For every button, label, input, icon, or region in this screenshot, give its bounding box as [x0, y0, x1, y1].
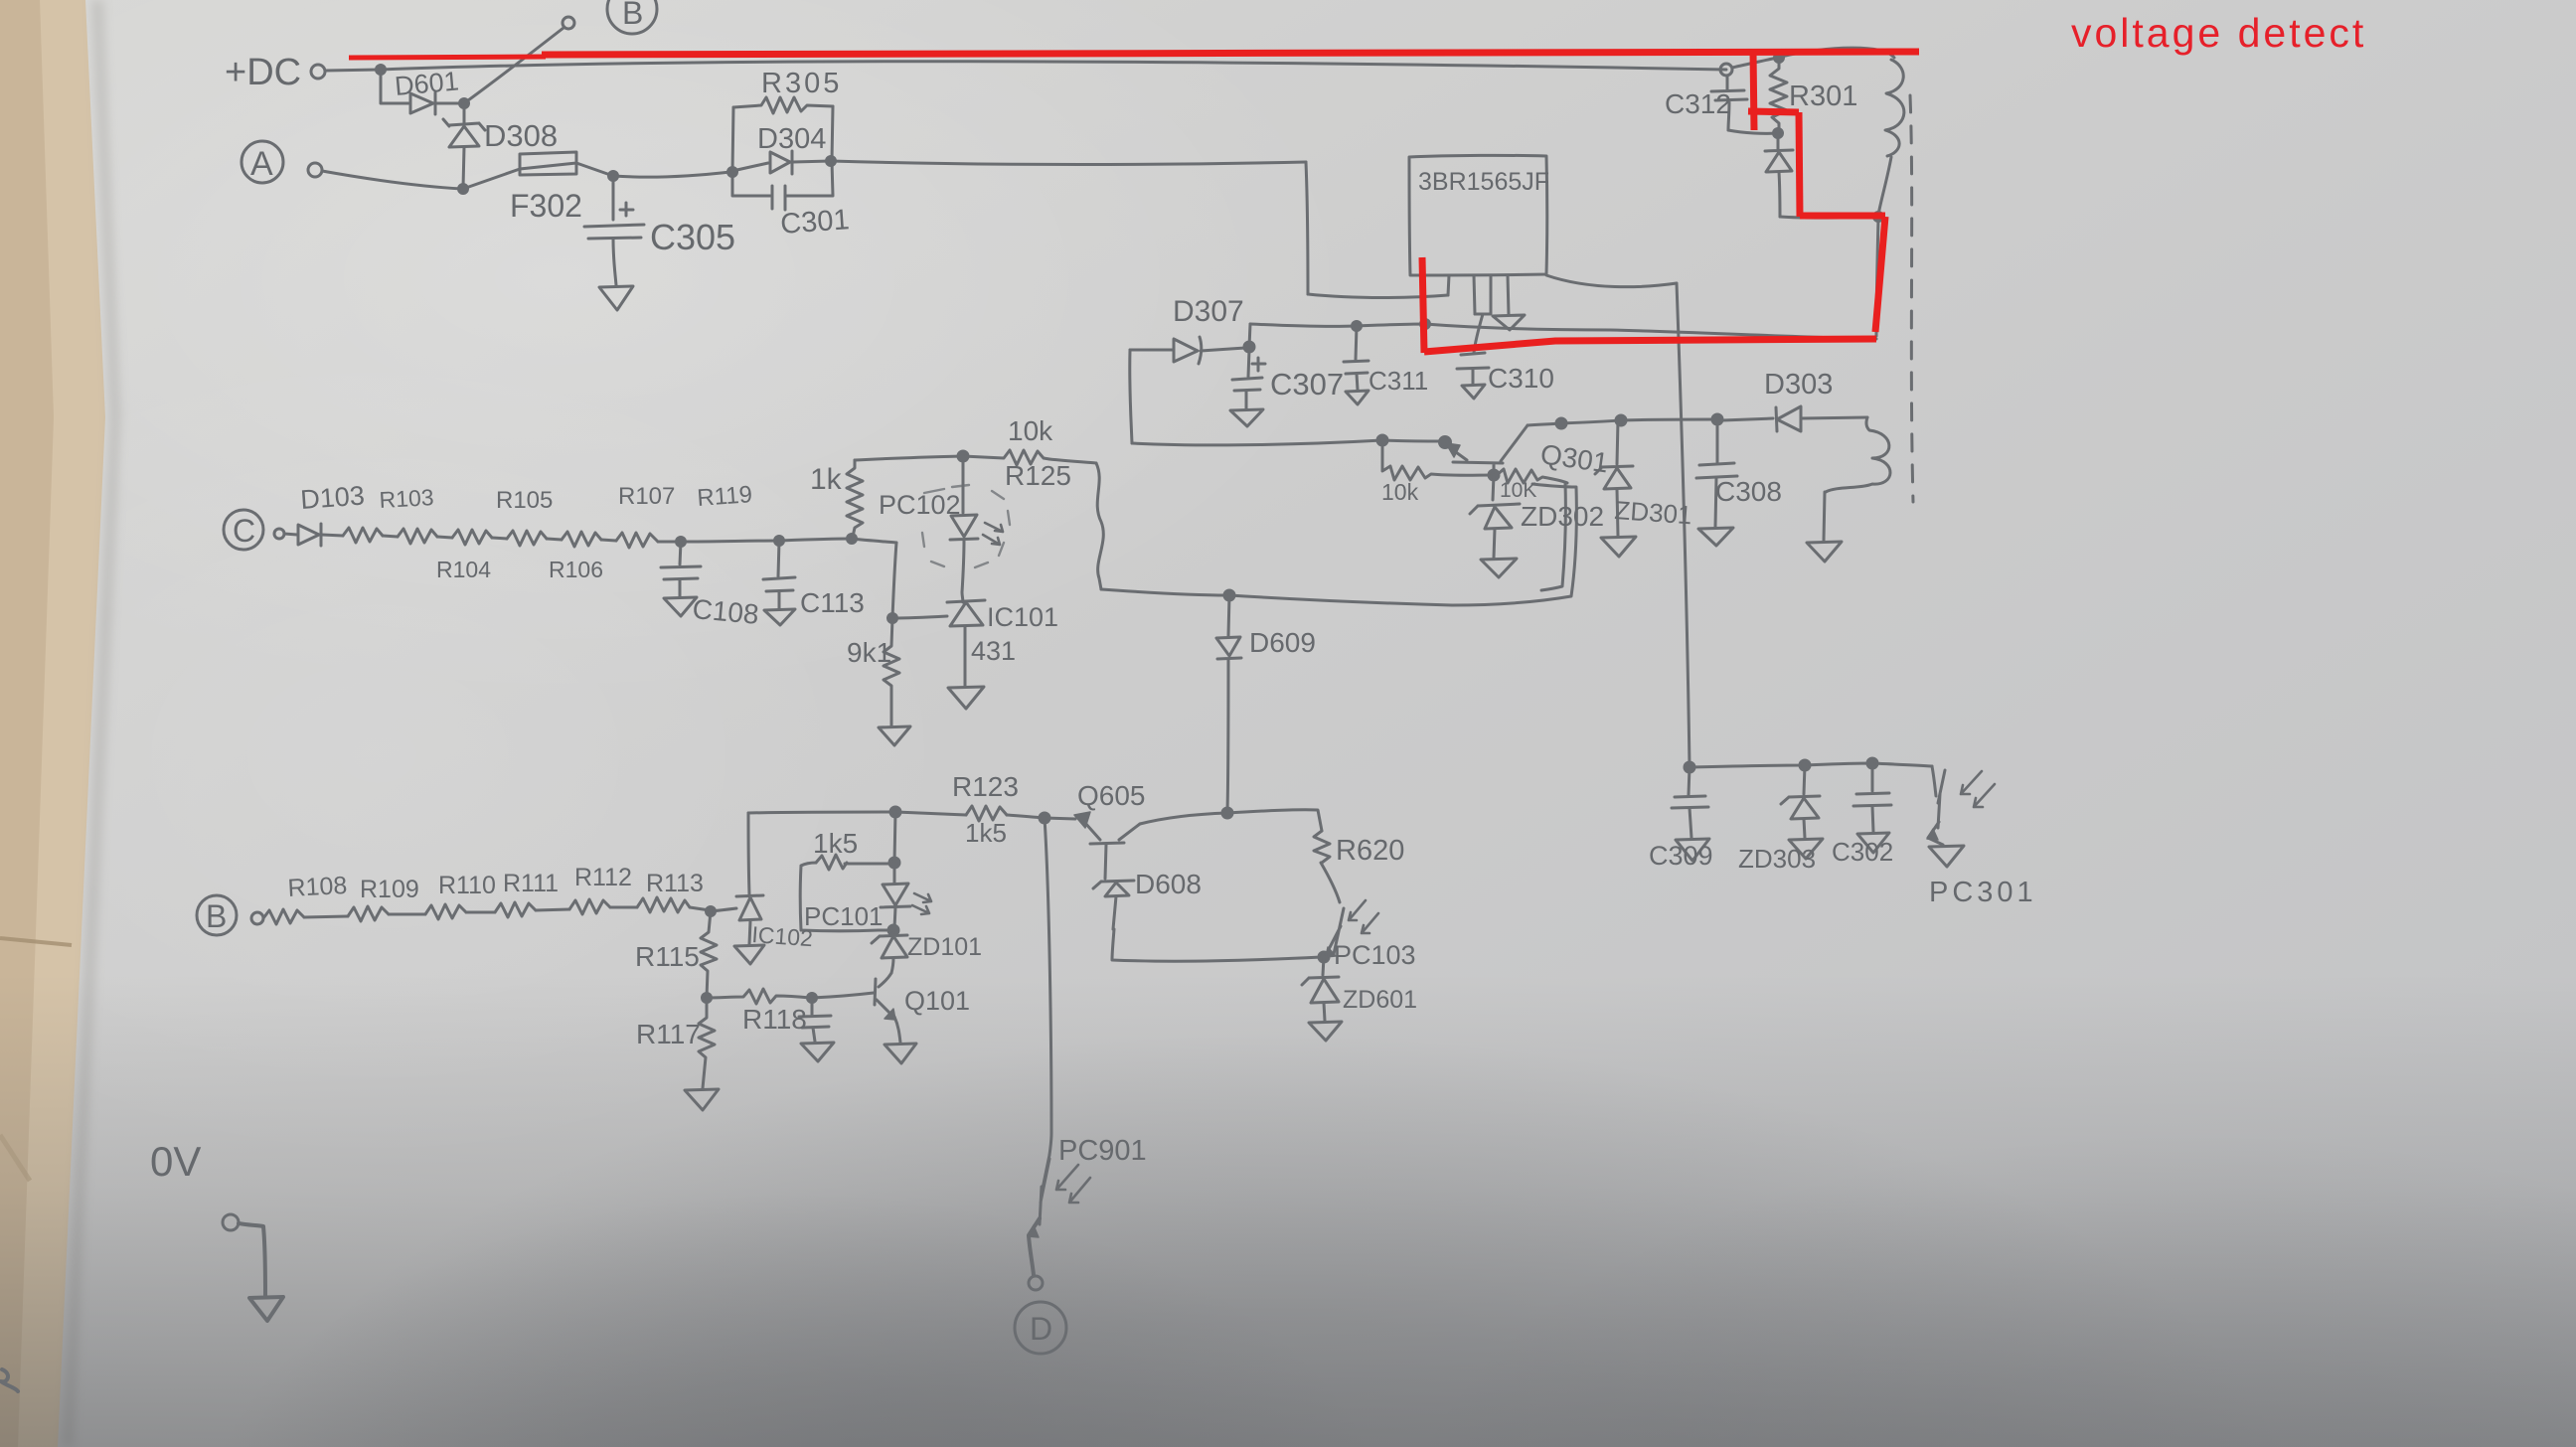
svg-text:C108: C108 [691, 593, 759, 630]
resistor R103 [343, 528, 383, 543]
light arrows PC102 [983, 523, 1003, 545]
node junction 10k left [1377, 435, 1387, 445]
svg-text:R119: R119 [697, 481, 753, 512]
LED PC101 [881, 863, 910, 928]
node junction D601/D308/B [460, 99, 469, 108]
svg-text:D609: D609 [1249, 627, 1316, 658]
wire 1k top [855, 456, 961, 460]
plus mark C307 [1252, 358, 1265, 371]
wire [383, 536, 398, 537]
svg-text:C308: C308 [1715, 476, 1782, 507]
svg-text:C309: C309 [1649, 841, 1713, 871]
wire D601 to junction [436, 102, 462, 105]
wire pins to C310 [1474, 314, 1483, 353]
node junction C302 [1867, 758, 1877, 768]
terminal B bottom [251, 912, 263, 924]
ground IC102 [734, 945, 764, 964]
svg-text:0V: 0V [150, 1138, 201, 1185]
svg-text:R620: R620 [1336, 835, 1404, 867]
capacitor C113 [763, 541, 795, 608]
svg-text:PC301: PC301 [1929, 877, 2037, 908]
wire [437, 537, 452, 538]
svg-text:R125: R125 [1005, 460, 1071, 491]
ground C310 [1462, 385, 1485, 399]
plus mark C305 [620, 203, 633, 216]
wire corner to coil bottom [1780, 217, 1877, 218]
wire C305 to ground [613, 239, 616, 285]
node junction C305 [609, 172, 618, 181]
svg-text:R107: R107 [618, 483, 675, 510]
svg-text:PC101: PC101 [804, 901, 884, 931]
wire D307 left drop [1130, 350, 1132, 443]
shunt reg IC102 [736, 895, 763, 944]
box PC101 [800, 863, 891, 931]
node junction R305 block left [728, 168, 737, 177]
wire base bus [1132, 440, 1382, 445]
svg-text:D601: D601 [394, 66, 460, 101]
zener ZD302 [1470, 475, 1520, 558]
light arrows PC101 [912, 893, 931, 914]
ground ZD301 [1601, 537, 1636, 557]
ground IC101 [948, 687, 984, 709]
wire to R305 block [613, 172, 730, 177]
svg-text:C305: C305 [650, 217, 735, 257]
wire PC901 long drop [1045, 818, 1051, 1155]
wire R123 to junction [1007, 815, 1044, 818]
ground 0V [249, 1297, 283, 1321]
wire D608 down and right [1112, 929, 1322, 961]
terminal +DC [311, 65, 325, 79]
Q101 emitter arrowhead [885, 1009, 895, 1020]
resistor R301 [1770, 58, 1787, 130]
red horizontal to coil [1800, 213, 1885, 220]
node junction rail PC101 [890, 807, 900, 817]
wire output row [1690, 763, 1932, 767]
wire [547, 539, 562, 540]
wire A line to IC [831, 161, 1306, 165]
wire rail drop to PC101 [894, 812, 895, 863]
svg-text:431: 431 [971, 636, 1016, 666]
node junction R301 bottom [1774, 129, 1783, 138]
wire to C113 node [681, 541, 779, 542]
capacitor C307 [1232, 350, 1262, 408]
wire rail to R620 [1227, 810, 1322, 831]
svg-text:D303: D303 [1764, 369, 1833, 401]
red vertical right of diode [1799, 112, 1800, 217]
diode D103 [298, 524, 321, 546]
svg-text:voltage detect: voltage detect [2071, 10, 2366, 56]
wire bus to box bottom [1229, 595, 1452, 605]
svg-text:1k: 1k [810, 463, 843, 496]
svg-text:ZD301: ZD301 [1614, 495, 1693, 530]
resistor R123 [966, 806, 1007, 821]
capacitor C302 [1853, 763, 1891, 832]
red annotation line segment left [349, 57, 546, 58]
svg-text:C312: C312 [1665, 88, 1731, 119]
wire secondary to ground [1824, 492, 1825, 541]
wire C305 stem [612, 176, 615, 220]
node junction R115/R117 [703, 994, 712, 1003]
wire box inner stroke [1541, 483, 1565, 590]
svg-text:R305: R305 [761, 68, 842, 99]
wire bus to D609 [1101, 589, 1227, 595]
node junction C108 [677, 538, 686, 547]
light arrows PC301 [1961, 771, 1995, 807]
resistor R117 [699, 998, 715, 1088]
fuse F302 [520, 152, 576, 175]
ground 9k1 [879, 726, 910, 745]
ground pin 4 [1493, 315, 1525, 330]
svg-text:D608: D608 [1135, 869, 1202, 899]
phototransistor PC103 [1321, 863, 1344, 955]
wire C to D103 [284, 534, 297, 535]
wire box around Q301 [1452, 484, 1576, 605]
wire rail PC101 top [748, 812, 893, 813]
resistor R115 [701, 911, 717, 998]
resistor R110 [425, 904, 466, 919]
svg-text:R106: R106 [549, 557, 603, 582]
desk along left edge [0, 0, 105, 1447]
svg-text:1k5: 1k5 [965, 818, 1007, 848]
svg-text:9k1: 9k1 [847, 637, 891, 668]
node junction D307/C307 [1244, 342, 1254, 352]
wire C312 node to R301 top [1732, 58, 1777, 68]
svg-text:R109: R109 [360, 876, 419, 903]
node junction bus C311 [1353, 322, 1362, 331]
phototransistor PC301 [1932, 766, 1945, 828]
resistor 1k [847, 460, 863, 537]
wire A to junction [322, 171, 462, 189]
node junction PC103 emitter [1319, 952, 1329, 962]
svg-text:+DC: +DC [225, 52, 301, 93]
pin 1 [1448, 275, 1449, 295]
node junction A/D308 [459, 185, 468, 194]
resistor R620 [1314, 831, 1330, 863]
diode D307 [1130, 337, 1245, 364]
svg-text:R105: R105 [496, 487, 553, 514]
svg-text:R118: R118 [742, 1004, 807, 1035]
svg-text:10k: 10k [1381, 479, 1419, 505]
svg-text:IC101: IC101 [987, 602, 1058, 632]
wire [492, 538, 507, 539]
node junction coil bottom [1874, 213, 1883, 222]
wire junction to Q605 [1045, 818, 1075, 819]
wire A line drop [1306, 162, 1308, 294]
wire IC right to drop [1546, 275, 1677, 287]
transformer secondary winding [1826, 417, 1890, 492]
wire D601 branch down [381, 70, 408, 103]
svg-text:PC102: PC102 [879, 490, 961, 520]
resistor R109 [348, 906, 389, 921]
svg-text:R108: R108 [287, 872, 348, 902]
wire R301 top to transformer [1781, 48, 1894, 58]
svg-text:B: B [206, 898, 227, 934]
transistor Q101 [875, 973, 893, 1017]
ground C311 [1346, 391, 1368, 404]
svg-text:ZD303: ZD303 [1738, 844, 1816, 874]
wire C312 to R301 bottom [1728, 130, 1776, 133]
transformer core dashed [1910, 95, 1913, 502]
wire [389, 913, 425, 916]
wire collector bus [1528, 419, 1716, 425]
node B circle [607, 0, 657, 34]
ground Q101 [885, 1044, 916, 1063]
diode D310 [1765, 133, 1793, 172]
red bottom bus highlight [1424, 339, 1876, 352]
node junction IC101 row [888, 614, 897, 623]
svg-text:Q605: Q605 [1077, 780, 1146, 811]
wire [304, 916, 348, 917]
ground C307 [1230, 409, 1263, 426]
node junction Q605/PC901 [1040, 813, 1049, 823]
PC103 emitter arrowhead [1326, 947, 1336, 957]
wire IC101 to ground [964, 627, 967, 686]
node junction ZD301 top [1616, 415, 1626, 425]
svg-text:R301: R301 [1789, 80, 1857, 112]
capacitor C309 [1672, 767, 1708, 838]
node A circle [241, 141, 283, 183]
wire rail to R123 [895, 812, 966, 815]
svg-text:10k: 10k [1008, 415, 1053, 446]
resistor R118 [707, 989, 810, 1004]
resistor R112 [569, 899, 610, 914]
node junction D601 top [377, 66, 386, 75]
resistor R107 [562, 532, 601, 547]
svg-text:ZD601: ZD601 [1343, 986, 1417, 1014]
wire block bottom left [732, 172, 770, 196]
svg-text:A: A [250, 145, 273, 183]
svg-text:R111: R111 [503, 870, 559, 897]
pencil scribble bottom left [1, 1369, 18, 1391]
wire coil drop under red [1876, 219, 1878, 336]
resistor R108 [263, 909, 304, 924]
ground R117 [685, 1089, 719, 1110]
node junction D609 bottom [1222, 808, 1232, 818]
node junction C113 [775, 537, 784, 546]
capacitor C310 [1457, 353, 1489, 384]
resistor R305 [733, 97, 833, 113]
wire D103 to chain [322, 535, 343, 536]
terminal 0V [223, 1214, 239, 1230]
node junction bus red corner [1421, 320, 1430, 329]
node D circle [1015, 1302, 1066, 1354]
wire IC102 to rail [748, 813, 749, 894]
LED PC102 [950, 456, 978, 602]
node C312 terminal [1720, 64, 1732, 76]
wire junction to fuse [463, 169, 520, 189]
wire R125 to drop [1049, 459, 1096, 463]
wire coil tail [1878, 157, 1891, 215]
pin 3 [1475, 275, 1491, 314]
resistor R106 [507, 531, 547, 546]
svg-text:3BR1565JF: 3BR1565JF [1418, 168, 1549, 196]
svg-text:D307: D307 [1173, 295, 1244, 328]
svg-text:R113: R113 [646, 870, 704, 897]
svg-text:C: C [233, 513, 255, 549]
PC301 emitter [1928, 822, 1943, 845]
ground ZD302 [1481, 559, 1517, 577]
svg-text:10K: 10K [1500, 479, 1536, 502]
svg-text:R110: R110 [438, 872, 496, 899]
Q605 emitter arrowhead [1074, 812, 1090, 828]
wire D308 to A line [463, 147, 464, 188]
svg-text:R103: R103 [379, 484, 434, 513]
resistor R113 [637, 897, 690, 912]
ground secondary [1807, 542, 1842, 562]
svg-text:C301: C301 [779, 204, 850, 241]
svg-text:Q101: Q101 [904, 986, 970, 1016]
svg-text:C311: C311 [1368, 366, 1428, 396]
node junction PC101 bottom [888, 925, 898, 935]
capacitor C305 [584, 225, 644, 239]
wire Q605 collector rail [1140, 813, 1227, 824]
svg-text:C307: C307 [1270, 367, 1344, 402]
resistor 10k left of Q301 [1382, 440, 1492, 480]
ground C302 [1857, 833, 1889, 853]
light arrows PC103 [1349, 900, 1378, 933]
wire [610, 906, 637, 909]
wire bottom bus to C309 [1685, 762, 1694, 772]
ground C308 [1698, 528, 1733, 546]
wire IC101 row [892, 616, 947, 618]
wire to 1k bottom [779, 539, 850, 541]
svg-text:D103: D103 [299, 481, 365, 515]
wire ground bus y330 [1250, 324, 1876, 339]
node junction ZD303 [1800, 760, 1810, 770]
terminal B [563, 17, 574, 29]
wire R118 to Q101 base [812, 993, 874, 998]
svg-text:F302: F302 [510, 188, 582, 224]
svg-text:C310: C310 [1488, 363, 1554, 394]
red vertical at C312 [1753, 52, 1754, 130]
ground C113 [764, 609, 795, 625]
svg-text:D: D [1030, 1311, 1052, 1347]
wire pin bus [1308, 294, 1448, 298]
svg-text:R117: R117 [636, 1019, 701, 1049]
svg-text:R104: R104 [436, 557, 491, 582]
terminal C [274, 529, 284, 539]
resistor R119 [616, 533, 658, 548]
svg-text:ZD302: ZD302 [1521, 501, 1604, 532]
node junction collector [1556, 418, 1566, 428]
wire to C108 node [658, 541, 681, 544]
node junction 1k bottom [848, 535, 857, 544]
wire top +DC rail [381, 62, 1726, 70]
wire block right riser [832, 106, 833, 161]
svg-text:D308: D308 [484, 118, 558, 153]
zener ZD301 [1595, 420, 1633, 536]
IC U301 3BR1565JF body [1409, 155, 1547, 275]
resistor 9k1 [884, 618, 899, 725]
pin 4 [1508, 275, 1509, 315]
resistor R105 [452, 530, 492, 545]
node junction Q301 base [1489, 470, 1499, 480]
svg-text:ZD101: ZD101 [907, 933, 982, 961]
terminal D [1029, 1276, 1043, 1290]
wire [601, 540, 616, 541]
capacitor C301 [772, 186, 785, 210]
wire to R115 junction [690, 907, 710, 910]
node junction PC102 top [958, 451, 968, 461]
resistor R111 [495, 902, 536, 917]
diode D609 [1216, 595, 1241, 659]
node B circle bottom [197, 895, 237, 935]
capacitor C312 [1711, 76, 1747, 130]
zener ZD303 [1781, 765, 1820, 838]
node junction PC101 top [889, 858, 899, 868]
svg-text:R112: R112 [574, 864, 632, 891]
wire fuse to C305 node [576, 163, 613, 176]
transistor Q301 [1449, 425, 1528, 474]
wire +DC to junction [325, 70, 381, 71]
capacitor C at R118 [799, 998, 831, 1042]
ground ZD303 [1789, 839, 1823, 859]
wire block bottom right [786, 161, 833, 196]
ground C108 [664, 597, 697, 616]
red jog horizontal [1748, 111, 1799, 112]
wire [466, 911, 495, 914]
dashed outline PC102 [922, 485, 1010, 567]
diode D601 [410, 92, 435, 114]
wire block left riser [732, 107, 733, 172]
svg-text:1k5: 1k5 [813, 828, 858, 859]
PC901 emitter [1029, 1218, 1040, 1275]
capacitor C108 [661, 542, 701, 596]
zener D608 [1093, 845, 1134, 929]
light arrows PC901 [1056, 1165, 1090, 1203]
wire to node B [464, 28, 563, 103]
resistor 10k right of Q301 [1496, 469, 1567, 483]
transistor Q605 [1084, 822, 1140, 844]
wire drop to IC101 row [892, 543, 896, 617]
transformer primary winding [1885, 60, 1904, 156]
wire [536, 909, 569, 910]
capacitor C308 [1696, 420, 1737, 527]
svg-text:B: B [622, 0, 643, 31]
resistor 1k5 [816, 855, 847, 870]
wire bus corner to D307 node [1249, 324, 1250, 347]
pin 2 [1474, 275, 1475, 314]
node junction R301 top [1775, 54, 1784, 63]
node junction D609 [1224, 590, 1234, 600]
zener ZD601 [1302, 957, 1339, 1021]
diode D303 [1722, 406, 1867, 431]
resistor R104 [398, 529, 437, 544]
diode D304 [732, 151, 831, 174]
ground cap R118 [801, 1043, 834, 1061]
ground C305 [599, 286, 633, 310]
zener D308 [443, 103, 485, 147]
wire D609 to Q605 rail [1227, 659, 1228, 811]
node C circle [224, 510, 263, 550]
svg-text:C302: C302 [1832, 837, 1893, 867]
wire 0V [239, 1223, 265, 1296]
node junction R118/cap [808, 994, 817, 1003]
red vertical to IC [1422, 257, 1424, 353]
wire to IC102 [711, 908, 736, 911]
node junction C308 [1712, 414, 1722, 424]
wire wavy drop right of R125 [1096, 463, 1103, 589]
svg-text:R115: R115 [635, 941, 700, 972]
wire long drop x1690 [1677, 283, 1690, 766]
ground C309 [1676, 839, 1709, 861]
ground PC301 [1929, 846, 1964, 867]
PC301 emitter arrowhead [1927, 829, 1938, 840]
svg-text:PC901: PC901 [1058, 1135, 1147, 1167]
capacitor C311 [1344, 326, 1368, 390]
node junction R115 [707, 907, 716, 916]
Q301 emitter arrowhead [1446, 443, 1460, 457]
